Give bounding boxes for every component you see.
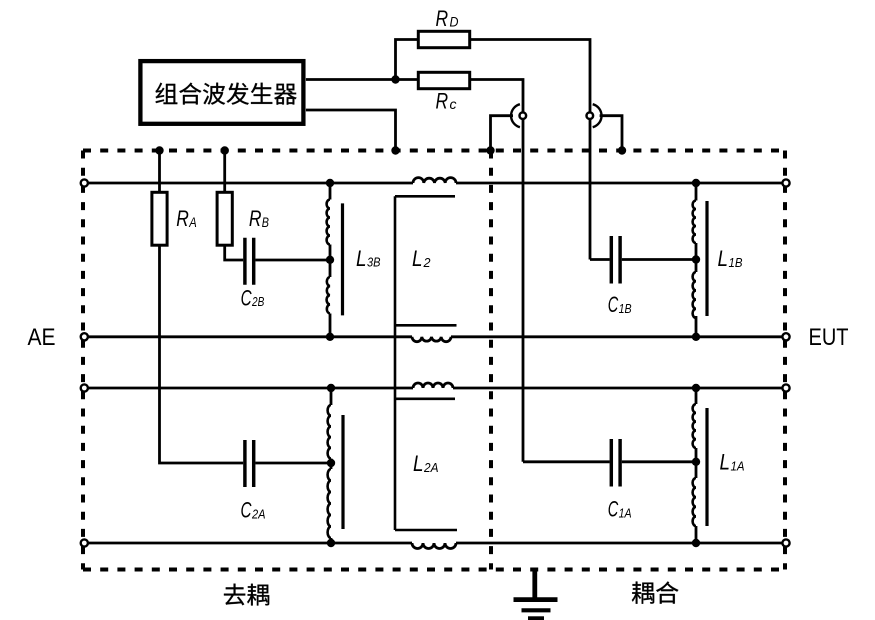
node: L1A bottom on line4 (692, 539, 700, 547)
svg-text:R: R (176, 206, 189, 231)
wire: generator top output to RD/Rc junction (306, 78, 396, 81)
svg-text:1A: 1A (619, 505, 632, 520)
wire: C1A left lead from S1 column (523, 460, 610, 463)
terminal (EUT side) on line at y=388 (782, 384, 789, 391)
svg-text:2A: 2A (251, 506, 265, 521)
switch S1 contact circle (520, 112, 527, 119)
wire: switch S1 stub to dashed bus (491, 116, 514, 151)
resistor Rc (418, 72, 469, 88)
wire: C1A right lead to L1A tap (622, 460, 696, 463)
wire: C1B right lead to L1B tap (622, 258, 696, 261)
node: L1A top on line3 (692, 384, 700, 392)
inductor L1B core bar (705, 201, 708, 316)
terminal (AE side) on line at y=388 (81, 384, 88, 391)
wire: RB bottom lead down to C2B lead (225, 245, 244, 260)
node: bottom on line4 (327, 539, 335, 547)
svg-text:2: 2 (423, 255, 432, 270)
label: decoupling section (去耦) (224, 584, 269, 606)
L2 winding humps on line1 (413, 178, 456, 183)
node: L1B top on line1 (692, 179, 700, 187)
resistor RA (152, 192, 167, 245)
node: L3B bottom on line2 (326, 333, 334, 341)
svg-text:D: D (450, 14, 459, 30)
L2 winding humps on line2 (facing down) (412, 337, 451, 342)
wire line3 (87, 387, 413, 390)
svg-text:L: L (356, 246, 367, 271)
capacitor C2A plates (245, 440, 254, 487)
terminal (AE side) on line at y=543 (81, 539, 88, 546)
switch S1 blade arc (511, 104, 520, 127)
node: RB tie on dashed bus (221, 146, 229, 154)
svg-text:2A: 2A (423, 460, 438, 475)
node: L3B top on line1 (326, 179, 334, 187)
svg-text:1B: 1B (619, 301, 632, 316)
inductor L1A core bar (705, 408, 708, 526)
svg-text:R: R (249, 206, 262, 231)
wire: RD right lead over to switch column (470, 40, 590, 112)
capacitor C1A plates (611, 439, 620, 487)
node: tap to C2A (327, 459, 335, 467)
capacitor C2B plates (245, 238, 254, 285)
svg-text:A: A (188, 214, 196, 230)
ground symbol (514, 570, 558, 619)
wire: generator bottom output down to dashed bus (306, 110, 396, 151)
inductor L3B winding (329, 183, 332, 200)
svg-text:L: L (720, 450, 731, 475)
node: L1B bottom on line2 (692, 333, 700, 341)
inductor L2/L2A core bracket (395, 196, 457, 530)
wire: Rc right lead over to switch column (470, 80, 523, 112)
node: generator bottom output on dashed bus (391, 146, 399, 154)
switch S2 blade arc (593, 104, 602, 127)
wire line2 (AE mid conductor) (87, 335, 412, 338)
wire: Rc left lead (396, 78, 418, 81)
node: top on line3 (327, 384, 335, 392)
node: junction of generator output, RD and Rc (391, 75, 399, 83)
wire: RA bottom lead down to C2A lead (160, 245, 244, 463)
svg-text:C: C (608, 497, 619, 522)
svg-text:C: C (241, 285, 252, 310)
dashed boundary box (decoupling/coupling network) (83, 151, 785, 570)
svg-text:R: R (436, 6, 449, 31)
L2A winding humps on line4 (facing down) (412, 543, 456, 549)
wire: RA top lead (158, 151, 161, 193)
wire: switch S1 down through lines to C1A (522, 120, 525, 462)
wire line4 (bottom conductor) (87, 542, 412, 545)
svg-text:C: C (241, 498, 252, 523)
terminal (EUT side) on line at y=336.8 (782, 333, 789, 340)
label: coupling section (耦合) (632, 581, 679, 603)
svg-text:R: R (436, 89, 449, 114)
terminal (EUT side) on line at y=183 (782, 179, 789, 186)
inductor winding between line3 and line4 (left) (330, 388, 333, 405)
L2A winding humps on line3 (413, 383, 453, 388)
capacitor C1B plates (611, 236, 620, 284)
wire: C2B right lead to L3B tap (255, 259, 330, 262)
node: L1B tap to C1B (692, 255, 700, 263)
svg-text:1A: 1A (731, 458, 745, 473)
label: combination wave generator (组合波发生器) (155, 83, 296, 105)
terminal (AE side) on line at y=336.8 (81, 333, 88, 340)
svg-text:EUT: EUT (809, 324, 849, 351)
node: L3B tap to C2B (326, 256, 334, 264)
svg-text:L: L (718, 246, 729, 271)
inductor L1A winding (695, 388, 698, 404)
switch S2 contact circle (587, 112, 594, 119)
wire: RB top lead (223, 151, 226, 193)
node: S1 stub on dashed bus (486, 146, 494, 154)
wire line1 (top conductor) (87, 182, 413, 185)
inductor core bar (lower left) (341, 415, 344, 529)
resistor RB (217, 192, 232, 245)
svg-text:AE: AE (28, 324, 56, 351)
dashed divider between decoupling and coupling sections (489, 151, 493, 570)
wire: switch S2 stub to dashed bus (600, 116, 622, 151)
wire: C2A right lead to lower-left inductor tap (255, 462, 331, 465)
svg-text:2B: 2B (251, 294, 264, 309)
svg-text:1B: 1B (729, 255, 743, 270)
svg-text:C: C (608, 292, 619, 317)
svg-text:L: L (413, 451, 424, 476)
terminal (AE side) on line at y=183 (81, 179, 88, 186)
terminal (EUT side) on line at y=543 (782, 539, 789, 546)
svg-text:c: c (450, 96, 457, 112)
combination wave generator box (140, 61, 303, 124)
wire: switch S2 down to C1B lead (589, 120, 592, 260)
node: S2 stub on dashed bus (618, 146, 626, 154)
svg-text:B: B (262, 214, 269, 230)
wire: C1B left lead from S2 column (590, 258, 610, 261)
svg-text:L: L (412, 246, 423, 271)
wire: RD left lead and tie to Rc junction (396, 40, 418, 80)
resistor RD (418, 31, 469, 47)
svg-text:3B: 3B (367, 255, 381, 270)
inductor L3B core bar (341, 203, 344, 315)
inductor L1B winding (695, 183, 698, 201)
node: L1A tap to C1A (692, 458, 700, 466)
node: RA tie on dashed bus (155, 146, 163, 154)
